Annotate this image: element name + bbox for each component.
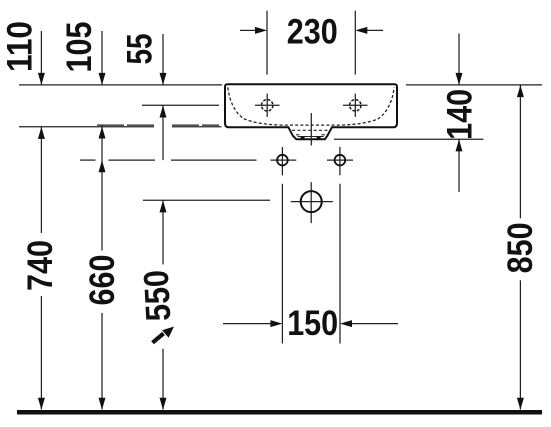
svg-text:660: 660 — [83, 255, 122, 306]
svg-text:230: 230 — [287, 12, 338, 51]
svg-text:150: 150 — [287, 304, 338, 343]
svg-text:850: 850 — [501, 222, 540, 273]
svg-text:550: 550 — [137, 269, 179, 322]
svg-text:140: 140 — [441, 89, 480, 140]
svg-text:55: 55 — [121, 34, 160, 65]
svg-text:740: 740 — [21, 240, 60, 291]
svg-text:105: 105 — [60, 22, 99, 73]
svg-text:110: 110 — [1, 21, 40, 72]
